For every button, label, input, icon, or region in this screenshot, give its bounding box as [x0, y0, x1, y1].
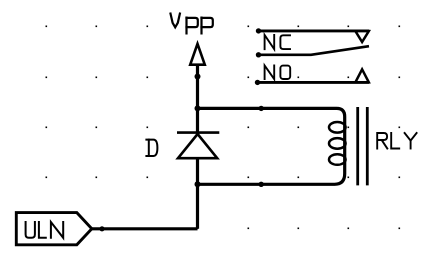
junction node A (top wire / diode cathode branch) — [195, 105, 201, 111]
diode D cathode bar — [177, 131, 219, 134]
NO wire end dot — [255, 80, 260, 85]
relay coil RLY with top and bottom wires — [198, 108, 345, 184]
label RLY — [377, 133, 416, 149]
label NO — [265, 66, 291, 80]
contact NC wire — [258, 29, 369, 32]
NC wire end dot — [256, 28, 261, 33]
port ULN flag — [16, 213, 92, 245]
label D — [146, 140, 157, 156]
NO fixed contact triangle — [355, 69, 368, 82]
wire ULN horizontal — [92, 227, 198, 230]
diode D triangle — [178, 134, 217, 158]
wire Vpp arrow down to top node — [196, 65, 199, 133]
power symbol Vpp (open arrow) — [190, 44, 205, 65]
junction on bottom wire — [259, 182, 264, 187]
wire diode anode down to ULN corner — [196, 158, 199, 229]
label NC — [265, 35, 290, 49]
NC fixed contact triangle — [355, 31, 368, 42]
relay core bars — [358, 107, 368, 185]
junction at ULN pin — [99, 226, 104, 231]
grid dots (decorative) — [46, 26, 401, 230]
switch pole (common) wire — [258, 46, 369, 55]
contact NO wire — [257, 81, 369, 84]
junction node B (bottom wire / diode anode branch) — [195, 181, 201, 187]
relay coil loops — [329, 122, 346, 165]
pole wire end dot — [256, 52, 261, 57]
label ULN — [26, 222, 64, 238]
junction on top wire — [259, 106, 264, 111]
junction on Vpp wire — [195, 74, 201, 80]
label Vpp — [171, 14, 213, 34]
